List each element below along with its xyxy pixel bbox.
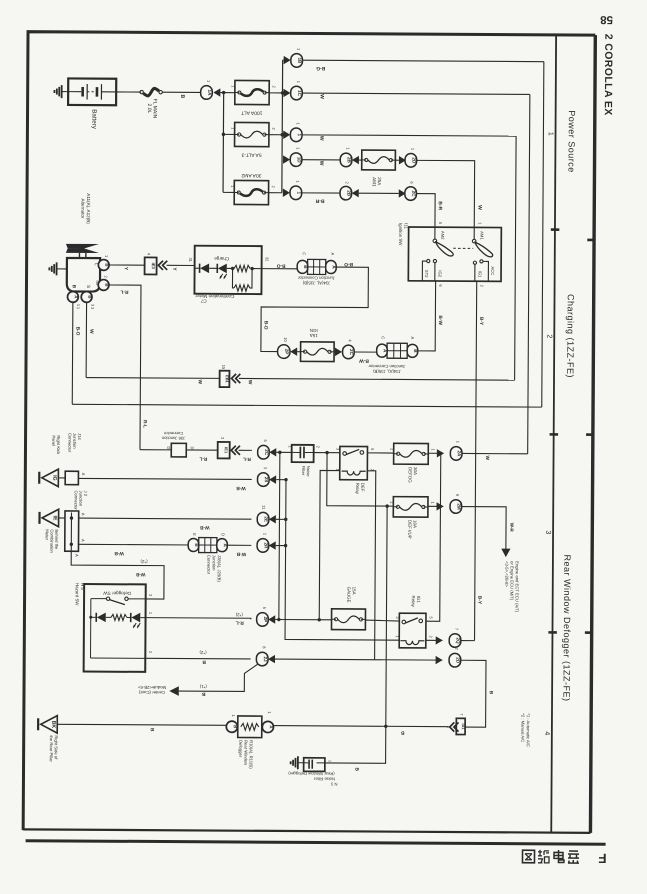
wire IG1 down (B-Y) — [475, 281, 485, 640]
node 2P (gauge) — [257, 607, 276, 627]
fuse 15A GAUGE — [331, 587, 365, 630]
svg-text:W-B: W-B — [200, 524, 210, 530]
node 2B (AM1 feed) — [340, 147, 362, 166]
svg-text:B: B — [353, 767, 359, 771]
resistor (charge lamp parallel bottom) — [232, 268, 252, 291]
svg-text:EB1: EB1 — [225, 375, 230, 383]
junction connector J34(A) J35(B) lower — [368, 336, 418, 374]
svg-text:2S: 2S — [264, 477, 269, 483]
defogger switch box (H5 Hazard SW) — [74, 583, 146, 672]
branch diagonal to Center Control Module arrow — [137, 663, 257, 697]
svg-text:R-L: R-L — [243, 456, 251, 462]
wire IE3 to combination meter pin 31, label Y — [167, 257, 195, 271]
node 2A (defogger power out) — [428, 441, 462, 461]
alternator terminal B (bottom, pin 3) — [81, 292, 95, 307]
mystery vertical tie (10A row to B row) — [386, 506, 387, 726]
svg-text:B-W: B-W — [437, 315, 443, 325]
svg-text:(*1): (*1) — [199, 684, 207, 689]
svg-text:(Rear Window Defogger): (Rear Window Defogger) — [288, 771, 335, 776]
wire 1A to fuse bus — [220, 92, 234, 94]
ignition switch terminal AM1 with wiper — [472, 222, 493, 257]
svg-text:R-L: R-L — [199, 455, 207, 461]
wire J36 to IE1, label R-L — [186, 450, 217, 462]
svg-text:Defogger SW: Defogger SW — [103, 591, 131, 596]
svg-text:B-O: B-O — [344, 261, 353, 267]
node 1C row, wire W — [283, 81, 530, 102]
svg-text:IG2: IG2 — [438, 270, 443, 277]
svg-text:3: 3 — [544, 530, 551, 534]
svg-text:A: A — [74, 554, 79, 557]
resistor (charge lamp parallel top) — [234, 265, 262, 272]
svg-text:Right Side ofthe Rear Pillar: Right Side ofthe Rear Pillar — [49, 735, 59, 762]
junction connector J28(A) J29(B) — [188, 533, 228, 583]
wire J2 lower to J28 junction, label W-B — [78, 544, 193, 556]
node 2D (AM1 out) — [395, 148, 416, 167]
svg-text:W: W — [476, 205, 482, 210]
svg-text:BK: BK — [50, 721, 56, 729]
wire alternator B terminal down, label W — [86, 302, 95, 377]
svg-text:B-Y: B-Y — [476, 596, 482, 605]
svg-text:W: W — [197, 380, 203, 385]
outer diagram border — [23, 32, 595, 834]
alternator terminal IG (circle B pin 2) — [98, 276, 109, 291]
wire 2J row to node 2D right — [275, 659, 442, 660]
svg-text:IE: IE — [52, 515, 58, 520]
wire 2C to ignition switch AM2, label B-R — [416, 194, 443, 228]
svg-text:AM1: AM1 — [479, 231, 484, 240]
node 2C (IGN fuse out) — [334, 339, 354, 359]
svg-text:B: B — [202, 659, 206, 665]
Charge label — [214, 256, 230, 261]
svg-text:A: A — [330, 253, 335, 256]
wire 2D down to IA1 and B row, label B — [460, 660, 494, 727]
ground IG via J14 (Right Kick Panel) — [39, 435, 61, 486]
svg-text:15AIGN: 15AIGN — [310, 328, 318, 338]
ignition switch gang dashed line — [453, 247, 473, 249]
alternator pulley — [66, 244, 99, 258]
svg-text:C: C — [381, 336, 386, 339]
svg-text:A: A — [81, 539, 86, 542]
wire DEF relay contact to 30A DEFOG fuse — [367, 452, 393, 454]
wire junction to ignition switch IG2, label B-W — [418, 281, 444, 351]
noise filter (capacitor) — [292, 445, 321, 478]
svg-text:D: D — [190, 447, 195, 450]
wire noise filter to DEF relay — [314, 451, 340, 455]
wire DEF relay feed branch down to 10A fuse row — [327, 453, 394, 508]
alternator terminal A (bottom, pin 1) — [67, 291, 81, 306]
svg-text:W: W — [88, 329, 94, 334]
node 2E — [257, 505, 286, 526]
svg-text:A: A — [81, 473, 86, 476]
svg-text:2J: 2J — [263, 656, 268, 662]
svg-text:J34(A), J35(B)Junction Connect: J34(A), J35(B)Junction Connector — [297, 275, 335, 285]
svg-text:R-L: R-L — [236, 619, 244, 625]
svg-text:W: W — [484, 456, 490, 461]
charge lamp circuit inside meter — [195, 263, 235, 279]
svg-text:D: D — [221, 533, 226, 536]
ground BK (Right Side of the Rear Pillar) — [38, 716, 59, 763]
wire battery to FL MAIN — [116, 91, 141, 93]
switch bottom row inside box — [91, 657, 146, 659]
grid number 2 — [545, 334, 552, 338]
svg-text:2 COROLLA EX: 2 COROLLA EX — [602, 34, 615, 116]
header Power Source — [566, 110, 576, 173]
svg-text:B-O: B-O — [74, 327, 80, 336]
wire 2P to 15A GAUGE fuse — [275, 618, 331, 622]
wire J2 upper to node 2E, label W-B — [79, 518, 252, 530]
svg-text:IG: IG — [51, 475, 57, 481]
svg-text:IE3: IE3 — [151, 263, 156, 270]
svg-text:B: B — [104, 283, 109, 286]
Engine ECU destination note — [504, 561, 520, 613]
connector IE3 — [145, 253, 168, 275]
svg-text:Charging (1ZZ-FE): Charging (1ZZ-FE) — [565, 294, 576, 378]
node 2P (IGN fuse feed) — [278, 337, 301, 358]
IG1 relay box — [395, 595, 434, 648]
svg-text:B: B — [87, 295, 92, 298]
node 2M (DEF I/UP out) — [428, 494, 462, 514]
node 2Q (IG1 relay coil to B-Y) — [426, 628, 475, 648]
node 2S — [257, 467, 286, 487]
svg-text:2D: 2D — [411, 157, 416, 164]
fuse 5A ALT-3 — [230, 122, 276, 157]
ground (noise filter N3) — [291, 756, 304, 769]
svg-text:1: 1 — [328, 760, 332, 762]
svg-text:Power Source: Power Source — [566, 110, 576, 173]
node 1D row, wire W — [283, 147, 342, 167]
ground (battery) — [54, 85, 68, 98]
svg-text:F: F — [598, 851, 606, 866]
svg-text:ACC: ACC — [490, 266, 495, 275]
title 2 COROLLA EX (rotated 90) — [602, 34, 615, 116]
node 2B pin2 (AM2 feed) — [340, 181, 399, 200]
svg-text:B-W: B-W — [359, 358, 369, 364]
wire J14 to node 2S, label W-B — [78, 478, 251, 491]
wire FL MAIN to node 1A, label B — [162, 92, 200, 98]
svg-text:2C: 2C — [349, 349, 354, 356]
svg-text:W-B: W-B — [236, 551, 246, 557]
svg-text:S: S — [86, 285, 91, 288]
node 1 row (30A AM2 output), wire B-R — [283, 180, 342, 203]
svg-text:W-B: W-B — [236, 485, 246, 491]
wire switch LED row to node 2P, labels (*2) R-L — [146, 612, 251, 626]
rear window defogger R10(A) R11(B) — [226, 711, 274, 769]
svg-text:Battery: Battery — [90, 109, 97, 130]
fuse 30A DEFOG — [389, 443, 435, 483]
defogger switch inner bus — [89, 599, 92, 658]
node 1A — [201, 80, 221, 99]
svg-text:B-R: B-R — [315, 198, 324, 204]
svg-text:W-R: W-R — [509, 523, 514, 533]
svg-text:30A AM2: 30A AM2 — [241, 172, 261, 178]
wire to junction connector, label B-W — [354, 352, 376, 364]
connector IA1 — [447, 713, 465, 734]
svg-text:IE1: IE1 — [224, 447, 229, 454]
wire 1C down right side (W) — [528, 94, 530, 453]
node 2D (switch ground via IA1) — [436, 647, 461, 667]
alternator label A11(A) A12(B) — [80, 193, 91, 224]
fuse 100A ALT — [231, 80, 277, 115]
svg-text:58: 58 — [600, 13, 613, 25]
wire ALT-3 down right side (W) — [515, 136, 516, 380]
svg-text:W: W — [318, 136, 324, 141]
node 1B row, wire B-G — [283, 48, 544, 72]
svg-text:Center (Cont)Module<2B-6>: Center (Cont)Module<2B-6> — [137, 685, 166, 695]
svg-text:IG1: IG1 — [478, 271, 483, 278]
svg-text:2M: 2M — [456, 503, 461, 510]
grid number 4 — [543, 731, 550, 735]
svg-text:100A ALT: 100A ALT — [241, 109, 262, 115]
svg-text:E: E — [192, 533, 197, 536]
svg-text:A: A — [81, 513, 86, 516]
svg-text:B: B — [233, 725, 238, 728]
svg-text:B: B — [400, 729, 404, 735]
fuse output bus (vertical) — [269, 60, 285, 193]
ignition switch contact ST2 — [422, 259, 430, 281]
header Charging (1ZZ-FE) — [565, 294, 576, 378]
fuse 15A IGN — [301, 328, 335, 362]
header Rear Window Defogger (1ZZ-FE) — [561, 554, 572, 701]
fusible link FL MAIN 2.0L — [140, 88, 163, 118]
svg-text:2B: 2B — [347, 157, 352, 164]
long B-O wire row joining 1B drop — [72, 404, 541, 407]
svg-text:D: D — [166, 446, 171, 449]
svg-text:(*2): (*2) — [235, 612, 243, 617]
asterisk notes — [520, 713, 531, 747]
svg-text:1A: 1A — [207, 90, 212, 97]
wire 2A to W drop from 1C — [462, 453, 528, 460]
wire DEF relay coil pin1 left-down to GAUGE row — [319, 470, 340, 619]
svg-text:B: B — [104, 263, 109, 266]
wire R-L to J36 — [140, 449, 171, 451]
left bus 2 (ground ovals to IG1 relay coil) — [283, 478, 400, 640]
svg-text:B-Y: B-Y — [478, 317, 484, 326]
svg-text:1B: 1B — [297, 57, 302, 64]
wire alternator A terminal down, label B-O — [72, 302, 81, 404]
ignition switch contact ACC — [480, 260, 496, 282]
svg-text:W: W — [318, 161, 324, 166]
svg-text:AM2: AM2 — [440, 231, 445, 240]
ignition switch contact IG1 — [473, 261, 482, 281]
svg-text:5A ALT-3: 5A ALT-3 — [241, 151, 261, 157]
svg-text:ST2: ST2 — [424, 270, 429, 278]
svg-text:Combination Meter: Combination Meter — [195, 294, 234, 299]
svg-text:2B: 2B — [346, 190, 351, 197]
footer rule — [26, 841, 606, 845]
page number 58 (rotated) — [600, 13, 613, 25]
svg-text:J34(A), J35(B)Junction Connect: J34(A), J35(B)Junction Connector — [368, 364, 406, 374]
fuse 25A AM1 — [362, 150, 396, 187]
fuse 10A DEF I/UP — [389, 497, 435, 539]
svg-text:2R: 2R — [263, 543, 268, 550]
alternator terminal L (circle B pin 1) — [98, 255, 109, 270]
svg-text:1: 1 — [547, 132, 554, 136]
wire 2D to ignition switch AM1, label W — [416, 160, 483, 227]
svg-text:B-R: B-R — [437, 201, 443, 210]
junction connector J2 (tall) — [58, 490, 88, 557]
svg-text:J36 JunctionConnector: J36 JunctionConnector — [161, 431, 185, 441]
svg-text:2P: 2P — [263, 617, 268, 623]
svg-text:4: 4 — [543, 731, 550, 735]
node 2C (AM2) — [399, 181, 417, 200]
wire switch B row to node 2J, labels (*2) B — [145, 650, 250, 665]
svg-text:R-L: R-L — [142, 420, 148, 428]
junction connector J34(A) J35(B) upper — [297, 252, 337, 285]
wire J34 to right, label B-O, Z-path down-left-down — [261, 260, 369, 352]
svg-text:Charge: Charge — [214, 256, 230, 261]
svg-text:Rear Window Defogger (1ZZ-FE): Rear Window Defogger (1ZZ-FE) — [561, 554, 572, 701]
node 1 row (5A ALT-3 output), wire W — [283, 122, 516, 143]
node 2J — [256, 646, 275, 666]
grid number 3 — [544, 530, 551, 534]
section boundary ticks — [548, 230, 594, 633]
battery — [68, 78, 116, 129]
ground IE (Behind the Combination Meter) — [39, 509, 59, 553]
svg-text:(*2): (*2) — [140, 559, 148, 564]
svg-text:2: 2 — [545, 334, 552, 338]
wire DEF relay coil pin2 right-down to SW row — [366, 471, 376, 660]
wire L terminal to IE3, label Y — [109, 265, 145, 271]
ground (alternator) — [49, 262, 67, 275]
node 2R — [257, 533, 286, 553]
B wire from defogger element to IA1 — [273, 724, 448, 736]
svg-text:2C: 2C — [411, 191, 416, 198]
svg-text:2A: 2A — [457, 450, 462, 457]
junction connector J36 — [161, 431, 195, 457]
branch to noise filter N3 — [325, 726, 386, 772]
svg-text:W: W — [247, 380, 253, 385]
svg-text:W-B: W-B — [135, 571, 145, 577]
svg-text:B: B — [149, 728, 155, 732]
left bus 1 (ovals to gauge row) — [277, 451, 281, 620]
wire 1B down right side (B-G) — [542, 62, 544, 407]
wire GAUGE fuse to IG1 relay — [365, 620, 399, 621]
svg-text:B: B — [488, 691, 494, 695]
svg-text:W-B: W-B — [114, 550, 124, 556]
svg-text:IA1: IA1 — [461, 723, 465, 729]
ignition switch terminal AM2 with wiper — [433, 222, 453, 256]
noise filter N3 (rear window defogger) — [288, 758, 338, 787]
svg-text:A: A — [410, 336, 415, 339]
defogger switch contact — [91, 597, 146, 605]
wire J28 to node 2R, label W-B — [227, 545, 251, 557]
svg-text:*1 : Automatic A/C*2 : Manual: *1 : Automatic A/C*2 : Manual A/C — [520, 713, 531, 747]
node 2C (defogger feed) — [258, 439, 293, 459]
svg-text:(*2): (*2) — [199, 650, 207, 655]
wire meter pin32 to junction connector, label B-O — [262, 257, 298, 269]
junction connector J14 — [58, 433, 86, 485]
svg-text:2C: 2C — [264, 449, 269, 456]
resistor (switch LED) — [111, 614, 127, 620]
wire DEFOG node down to IG1 relay contact — [426, 453, 443, 621]
DEF relay box — [335, 446, 375, 494]
svg-text:1D: 1D — [297, 157, 302, 164]
fuse 30A AM2 — [230, 172, 276, 205]
combination meter C7 box — [194, 246, 261, 304]
footer title F (CJK glyph blocks, rotated) — [522, 850, 606, 866]
svg-text:2E: 2E — [264, 516, 269, 522]
svg-text:B: B — [201, 691, 205, 697]
ignition switch contact IG2 — [433, 259, 442, 281]
LED (defogger indicator) — [127, 613, 146, 629]
header band separator line — [551, 35, 556, 833]
svg-text:B-O: B-O — [276, 263, 285, 269]
long W wire row with EB1 connector — [86, 364, 515, 389]
svg-text:W: W — [319, 94, 325, 99]
svg-text:1C: 1C — [297, 90, 302, 97]
svg-text:2P: 2P — [284, 349, 289, 355]
B ground wire row — [57, 724, 226, 732]
alternator A11(A) A12(B) body — [67, 258, 101, 292]
wire alternator IG terminal, R-L down — [108, 285, 149, 450]
svg-text:B-O: B-O — [263, 321, 269, 330]
connector IE1 — [218, 437, 240, 459]
diode (switch illumination) — [91, 612, 111, 622]
svg-text:R-L: R-L — [120, 289, 128, 295]
fuse feed bus (vertical) — [221, 91, 235, 193]
ignition switch I11 box — [398, 223, 502, 281]
svg-text:B: B — [179, 94, 185, 98]
svg-text:C: C — [302, 252, 307, 255]
wire IE1 to node 2C defog, label R-L — [239, 450, 252, 461]
wire 2M to ECU arrow, label W-R — [461, 507, 514, 558]
grid number 1 — [547, 132, 554, 136]
svg-text:2Q: 2Q — [456, 637, 461, 644]
wire J2 bottom stub to defogger SW pin3 — [71, 551, 164, 599]
svg-text:B-G: B-G — [316, 65, 325, 71]
svg-text:2D: 2D — [455, 657, 460, 664]
